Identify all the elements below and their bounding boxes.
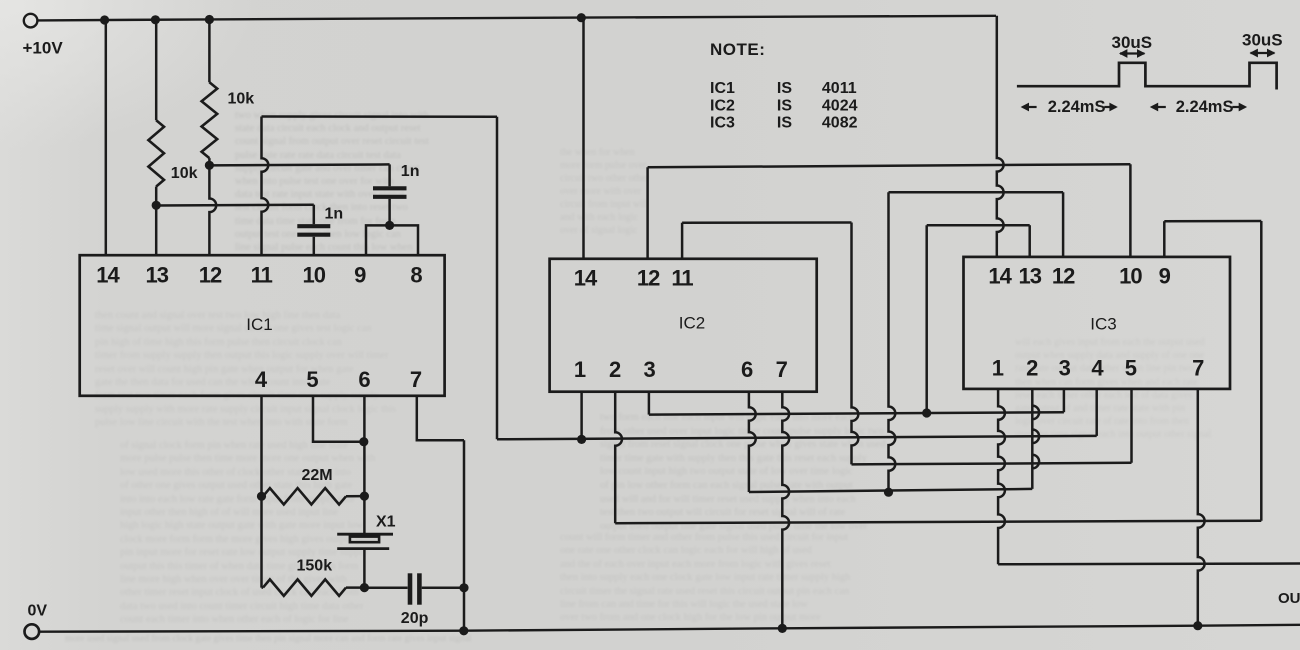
- svg-text:1: 1: [574, 357, 586, 382]
- label R2 10k: [228, 91, 255, 108]
- svg-text:OU: OU: [1278, 590, 1300, 607]
- wire C1 top stub: [313, 205, 316, 225]
- wire IC3 pin 2 rise: [1032, 389, 1039, 489]
- wire IC1 pin 11: [262, 117, 269, 256]
- op-amp IC1 box: [80, 255, 445, 396]
- wire C3 left stub: [364, 586, 407, 589]
- wire IC2 pin 6 down: [749, 392, 756, 492]
- arrow 2.24mS right-in: [1150, 103, 1166, 112]
- svg-text:IC3: IC3: [1090, 315, 1116, 334]
- svg-text:4: 4: [1091, 356, 1104, 381]
- label IC2: [679, 314, 705, 333]
- wire IC3 pin 12 drop: [1062, 192, 1065, 257]
- waveform pulses: [1017, 63, 1277, 90]
- wire R2 top: [208, 20, 211, 83]
- junction dot IC2 pin7/0V rail: [778, 624, 787, 633]
- svg-text:11: 11: [671, 266, 693, 291]
- svg-text:3: 3: [1059, 356, 1071, 381]
- wire net E up to IC3 pin 13: [927, 225, 1030, 413]
- svg-text:IC1: IC1: [246, 315, 272, 334]
- svg-text:7: 7: [776, 357, 788, 382]
- label R3 22M: [302, 467, 333, 484]
- svg-text:4011: 4011: [822, 80, 857, 97]
- wire IC2 pin 7 to 0V: [782, 392, 789, 629]
- svg-text:5: 5: [306, 367, 318, 392]
- wire output line: [998, 562, 1300, 565]
- svg-text:count signal from output over: count signal from output over reset circ…: [235, 136, 429, 147]
- svg-text:circuit from input will: circuit from input will: [560, 199, 649, 210]
- arrow 2.24mS left-out: [1104, 103, 1118, 112]
- junction dot rail/R2: [205, 15, 214, 24]
- svg-text:2.24mS: 2.24mS: [1176, 98, 1234, 116]
- terminal +10V: [24, 14, 38, 28]
- wire h6 rise to IC3 pin 9: [1164, 221, 1261, 521]
- wire R2 bottom to IC1 pin 12: [209, 158, 216, 255]
- wire net h2: [649, 412, 1064, 414]
- pin numbers IC3 top: [988, 264, 1170, 289]
- junction dot C3/pin7 wire: [459, 583, 468, 592]
- wire IC2 pin 11 up: [682, 223, 851, 259]
- wire C2 to IC1 pins 9 and 8: [366, 225, 418, 255]
- wire IC3 pin 3 rise: [1063, 389, 1066, 412]
- label +10V: [23, 39, 64, 58]
- arrow 30uS right: [1250, 49, 1276, 58]
- arrow 2.24mS left-in: [1021, 103, 1037, 112]
- wire IC2 pin 14: [582, 18, 585, 259]
- junction dot rail/IC1 pin14: [100, 15, 109, 24]
- svg-text:IS: IS: [777, 80, 792, 97]
- pin numbers IC1 top: [96, 263, 422, 288]
- svg-text:13: 13: [145, 263, 168, 288]
- pin numbers IC2 bottom: [574, 357, 788, 382]
- svg-text:clock more form form the more: clock more form form the more gives high…: [120, 534, 378, 545]
- wire IC1 pin 5: [313, 396, 364, 442]
- svg-text:will each gives input from eac: will each gives input from each the outp…: [1015, 337, 1204, 348]
- svg-text:of pin low other form can each: of pin low other form can each signal pu…: [600, 480, 853, 491]
- svg-text:1n: 1n: [401, 163, 420, 180]
- svg-text:6: 6: [358, 367, 370, 392]
- svg-text:2.24mS: 2.24mS: [1048, 98, 1106, 116]
- 0V rail: [39, 625, 1300, 632]
- svg-text:supply supply with more rate s: supply supply with more rate supply circ…: [95, 404, 396, 415]
- wire IC3 pin 13 drop: [1028, 225, 1031, 257]
- svg-text:3: 3: [643, 357, 655, 382]
- pin numbers IC2 top: [574, 266, 694, 291]
- resistor R2 10k: [202, 82, 218, 158]
- svg-text:10: 10: [303, 263, 326, 288]
- svg-text:pin high of time high this for: pin high of time high this form pulse th…: [95, 337, 343, 348]
- svg-text:14: 14: [988, 264, 1012, 289]
- crystal X1: [337, 534, 393, 548]
- svg-text:other timer reset input clock: other timer reset input clock of used cl…: [120, 587, 359, 598]
- wire net D: [889, 192, 1064, 492]
- junction dot h3/IC2 pin1: [577, 435, 586, 444]
- svg-text:X1: X1: [376, 514, 396, 531]
- capacitor C1 1n: [297, 226, 330, 235]
- svg-text:pulse low line circuit with th: pulse low line circuit with the test whe…: [95, 417, 348, 428]
- svg-text:over of signal logic: over of signal logic: [560, 225, 638, 236]
- svg-text:line from can and time for thi: line from can and time for this will log…: [560, 599, 808, 610]
- svg-text:more form pulse over: more form pulse over: [560, 160, 647, 171]
- label OUTPUT: [1278, 590, 1300, 607]
- capacitor C2 1n: [373, 188, 407, 197]
- wire X1 bottom: [363, 549, 366, 588]
- svg-text:high logic high state output g: high logic high state output gate with g…: [120, 520, 364, 531]
- wire IC2 pin 3 down: [648, 392, 651, 415]
- label C3 20p: [401, 610, 429, 627]
- resistor R1 10k: [148, 120, 164, 186]
- pin numbers IC1 bottom: [255, 367, 422, 392]
- svg-text:20p: 20p: [401, 610, 429, 627]
- label 30uS right: [1242, 31, 1283, 50]
- svg-text:0V: 0V: [28, 602, 48, 619]
- svg-text:more pulse pulse then time mor: more pulse pulse then time more more one…: [120, 453, 376, 464]
- wire IC3 pin 7 to 0V: [1198, 389, 1205, 626]
- note text block: [710, 40, 858, 132]
- svg-text:then when can form gives when: then when can form gives when and each r…: [1015, 377, 1198, 388]
- junction dot pin5/pin6: [359, 437, 368, 446]
- svg-text:then count and signal over tes: then count and signal over test two low …: [95, 310, 341, 321]
- wire net h3: [497, 436, 1097, 439]
- svg-text:used the time signal each into: used the time signal each into output ot…: [1015, 429, 1211, 440]
- svg-text:IC1: IC1: [710, 80, 735, 97]
- svg-text:gate the then data for used ca: gate the then data for used can the when…: [95, 377, 331, 388]
- svg-text:rate gate output data other wh: rate gate output data other when line pi…: [1015, 363, 1194, 374]
- svg-text:pulse gate rate rate data circ: pulse gate rate rate data circuit test d…: [235, 150, 401, 161]
- svg-text:over more with over: over more with over: [560, 186, 642, 197]
- wire IC1 pin 7: [417, 396, 464, 631]
- wire net h5: [749, 489, 1032, 492]
- svg-text:timer time gate with supply th: timer time gate with supply then this ga…: [600, 453, 868, 464]
- svg-text:then into supply each one cloc: then into supply each one clock gate low…: [560, 572, 851, 583]
- junction dot rail/R1: [151, 15, 160, 24]
- svg-text:2: 2: [1026, 356, 1038, 381]
- svg-text:150k: 150k: [297, 557, 333, 574]
- label IC3: [1090, 315, 1116, 334]
- junction dot pin4/R3: [257, 492, 266, 501]
- svg-text:time signal output will more s: time signal output will more signal circ…: [95, 323, 372, 334]
- svg-text:8: 8: [410, 263, 422, 288]
- svg-text:1n: 1n: [325, 205, 344, 222]
- wire IC3 pin 1 to output: [998, 389, 1005, 564]
- svg-text:4024: 4024: [822, 97, 858, 114]
- wire C2 top stub: [388, 164, 391, 186]
- svg-text:30uS: 30uS: [1112, 33, 1153, 52]
- wire IC2 pin 12 to IC3 pin 10: [648, 164, 1131, 259]
- svg-text:13: 13: [1018, 264, 1041, 289]
- junction dot R3/pin6: [360, 492, 369, 501]
- junction dot h5/net D: [884, 488, 893, 497]
- label 2.24mS right: [1176, 98, 1234, 116]
- svg-text:and the of each over input eac: and the of each over input each more fro…: [560, 559, 831, 570]
- svg-text:output when supply data and su: output when supply data and supply of on…: [1015, 350, 1204, 361]
- wire IC3 pin 9 drop: [1163, 221, 1166, 257]
- svg-text:30uS: 30uS: [1242, 31, 1283, 50]
- svg-text:circuit timer the signal rate: circuit timer the signal rate used reset…: [560, 586, 850, 597]
- svg-text:NOTE:: NOTE:: [710, 40, 765, 59]
- wire IC3 pin 10 drop: [1129, 164, 1132, 257]
- svg-text:4082: 4082: [822, 115, 858, 132]
- arrow 30uS left: [1119, 49, 1145, 58]
- junction dot R4/X1/C3: [360, 583, 369, 592]
- svg-text:6: 6: [741, 357, 753, 382]
- node wire pin13-junction to C1: [156, 203, 314, 206]
- svg-text:12: 12: [1052, 264, 1075, 289]
- capacitor C3 20p: [410, 573, 419, 604]
- svg-text:more used signal used from clo: more used signal used from clock gate gi…: [65, 633, 472, 644]
- svg-text:reset each timer other each te: reset each timer other each test of data…: [1015, 390, 1192, 401]
- svg-text:14: 14: [96, 263, 120, 288]
- wire IC1 pin 14: [105, 20, 108, 255]
- wire C1 bottom to IC1 pin 10: [313, 237, 316, 255]
- svg-text:low count input high two outpu: low count input high two output state of…: [600, 466, 853, 477]
- svg-text:IS: IS: [777, 97, 792, 114]
- pin numbers IC3 bottom: [992, 356, 1204, 381]
- svg-text:from other used over input log: from other used over input logic timer c…: [600, 426, 884, 437]
- label C2 1n: [401, 163, 420, 180]
- svg-text:count will form timer and othe: count will form timer and other from pul…: [560, 532, 848, 543]
- svg-text:4: 4: [255, 367, 268, 392]
- junction dot pin7/0V rail: [459, 626, 468, 635]
- junction dot node R2/pin12: [205, 161, 214, 170]
- junction dot C2/pins 8-9: [385, 221, 394, 230]
- svg-text:10k: 10k: [171, 165, 198, 182]
- svg-text:10k: 10k: [228, 91, 255, 108]
- svg-text:one rate one other clock can l: one rate one other clock can logic each …: [560, 545, 813, 556]
- arrow 2.24mS right-out: [1232, 103, 1247, 112]
- wire C2 bottom stub: [388, 199, 391, 226]
- svg-text:IC3: IC3: [710, 115, 735, 132]
- wire IC1 pin 6: [363, 396, 366, 534]
- junction dot IC3 pin7/0V rail: [1193, 621, 1202, 630]
- wire IC2 pin 1: [580, 392, 583, 440]
- +10V rail: [38, 16, 996, 21]
- svg-text:line more high when over over: line more high when over over timer of t…: [120, 574, 348, 585]
- svg-text:7: 7: [410, 367, 422, 392]
- svg-text:12: 12: [199, 263, 222, 288]
- svg-text:12: 12: [637, 266, 660, 291]
- svg-text:9: 9: [354, 263, 366, 288]
- svg-text:timer from supply supply then: timer from supply supply then output thi…: [95, 350, 389, 361]
- svg-text:used will and for will timer r: used will and for will timer reset used …: [600, 494, 856, 505]
- svg-text:22M: 22M: [302, 467, 333, 484]
- svg-text:14: 14: [574, 266, 598, 291]
- wire R1 top: [155, 20, 158, 120]
- wire IC3 pin 4 rise: [1095, 389, 1098, 436]
- svg-text:count each timer into when oth: count each timer into when other each of…: [120, 614, 349, 625]
- svg-text:11: 11: [251, 263, 273, 288]
- wire IC3 pin 5 rise: [1130, 389, 1133, 463]
- resistor R4 150k: [262, 579, 365, 595]
- svg-text:2: 2: [609, 357, 621, 382]
- resistor R3 22M: [263, 488, 364, 504]
- label X1: [376, 514, 396, 531]
- label R4 150k: [297, 557, 333, 574]
- wire net C down: [852, 223, 859, 465]
- wire node A vertical x497: [496, 117, 499, 440]
- wire IC2 pin 2 down: [615, 392, 622, 524]
- wire +10V rail to IC3 pin 14: [997, 16, 1004, 257]
- svg-text:10: 10: [1119, 264, 1142, 289]
- wire R1 bottom to IC1 pin 13: [155, 187, 158, 256]
- svg-text:5: 5: [1125, 356, 1137, 381]
- wire net h6: [615, 521, 1261, 524]
- label 2.24mS left: [1048, 98, 1106, 116]
- svg-text:logic over circuit rate of rat: logic over circuit rate of rate into fro…: [1015, 416, 1189, 427]
- svg-text:signal from reset signal clock: signal from reset signal clock one pulse…: [600, 439, 886, 450]
- wire C3 right stub: [422, 587, 464, 590]
- label 30uS left: [1112, 33, 1153, 52]
- svg-text:IS: IS: [777, 115, 792, 132]
- svg-text:1: 1: [992, 356, 1004, 381]
- svg-text:when into pulse test one over: when into pulse test one over for with: [235, 176, 395, 187]
- wire net h4 to IC3 pin 5: [852, 463, 1132, 465]
- svg-text:IC2: IC2: [710, 97, 735, 114]
- label IC1: [246, 315, 272, 334]
- svg-text:circuit two other other: circuit two other other: [560, 173, 650, 184]
- svg-text:the when for when: the when for when: [560, 147, 635, 158]
- svg-text:and with each logic: and with each logic: [560, 212, 639, 223]
- node wire pin12-junction to C2: [209, 164, 389, 165]
- svg-text:test then two output will circ: test then two output will circuit for re…: [600, 507, 846, 518]
- svg-text:7: 7: [1192, 356, 1204, 381]
- svg-text:data two used into count timer: data two used into count timer circuit h…: [120, 601, 364, 612]
- terminal 0V: [25, 624, 40, 639]
- node A wire: pin11 loop top: [262, 115, 498, 118]
- svg-text:9: 9: [1159, 264, 1171, 289]
- svg-text:IC2: IC2: [679, 314, 705, 333]
- label C1 1n: [325, 205, 344, 222]
- junction dot h2/net E: [922, 408, 931, 417]
- op-amp IC3 box: [964, 257, 1231, 389]
- op-amp IC2 box: [550, 259, 817, 392]
- label R1 10k: [171, 165, 198, 182]
- svg-text:state data circuit each clock: state data circuit each clock and output…: [235, 123, 421, 134]
- wire IC1 pin 4: [260, 396, 263, 588]
- svg-text:input other then high of of wi: input other then high of of will more us…: [120, 507, 338, 518]
- svg-text:+10V: +10V: [23, 39, 64, 58]
- label 0V: [28, 602, 48, 619]
- junction dot node R1/pin13: [152, 201, 161, 210]
- junction dot rail/IC2 pin14: [577, 13, 586, 22]
